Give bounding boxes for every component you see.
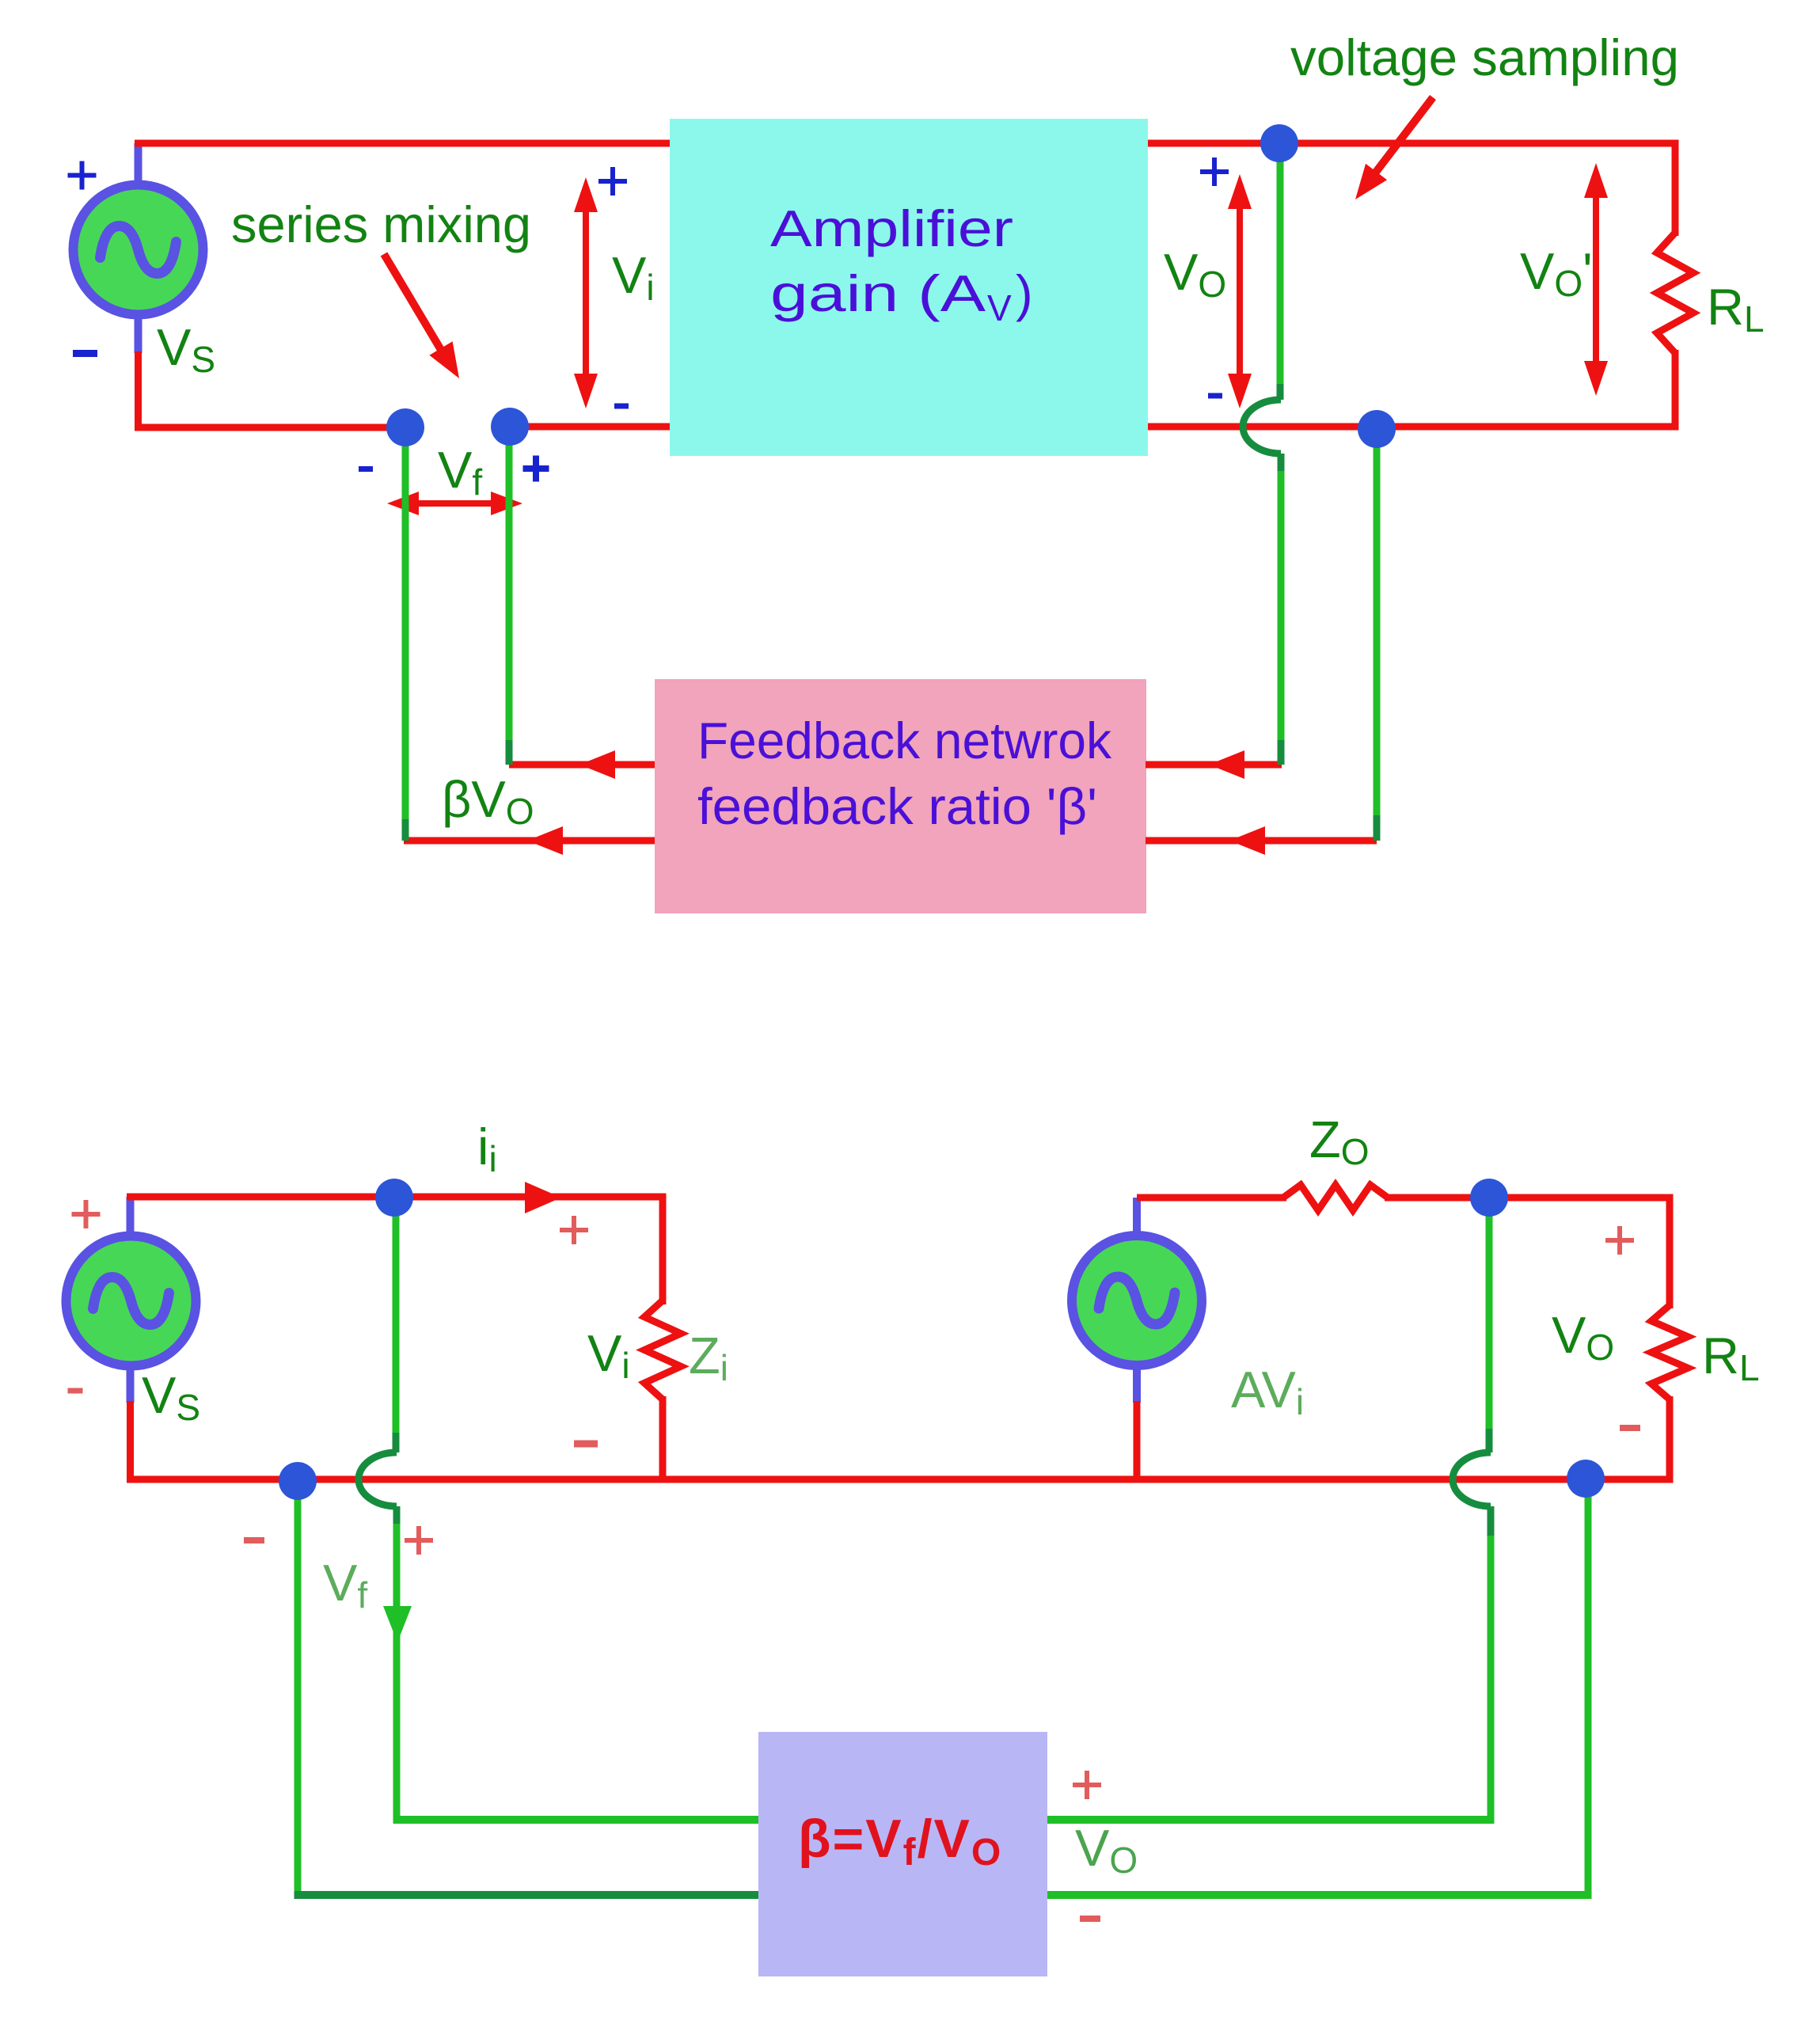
svg-text:RL: RL [1707, 278, 1765, 340]
wire bottom input left [135, 424, 405, 431]
node sampling top [1260, 124, 1298, 162]
minus Vo2 [1620, 1425, 1640, 1431]
svg-text:feedback ratio 'β': feedback ratio 'β' [697, 777, 1097, 835]
wire amplifier out bottom [1148, 423, 1679, 431]
minus VS2 [68, 1388, 83, 1394]
resistor RL top [1657, 233, 1693, 353]
wire green sample node down [1277, 144, 1284, 388]
arrow Vo-prime [1593, 193, 1599, 366]
amplifier U1 box [670, 119, 1148, 456]
plus Vi2 [560, 1228, 588, 1232]
minus Vf [359, 466, 373, 472]
svg-text:AVi: AVi [1231, 1361, 1304, 1422]
plus Vo2 [1605, 1238, 1634, 1243]
node output bottom [1358, 410, 1396, 448]
hop green right [1453, 1452, 1491, 1506]
source AVi stems [1133, 1198, 1141, 1240]
svg-text:VO: VO [1552, 1306, 1614, 1368]
wire RL top vertical [1672, 143, 1679, 236]
wire node2 to amplifier [510, 423, 670, 431]
amplifier U1 label [770, 199, 1033, 328]
arrowhead Vf green [383, 1606, 412, 1642]
wire feedback A [509, 761, 655, 769]
wire green upper horizontal right [1047, 1816, 1495, 1824]
source VS2 [66, 1236, 196, 1366]
arrowhead feedback C [1209, 750, 1244, 779]
node N1 [386, 408, 424, 446]
svg-text:Vi: Vi [612, 246, 655, 308]
minus Vi [614, 404, 629, 409]
feedback network box [655, 679, 1146, 913]
arrow series mixing [384, 254, 443, 354]
wire VS bottom stem [135, 351, 142, 427]
wire RL2 vertical bottom [1666, 1396, 1674, 1483]
wire amplifier out top [1148, 140, 1679, 147]
wire AVi top to Zo [1137, 1194, 1286, 1202]
svg-text:βVO: βVO [442, 770, 534, 832]
node N2 [491, 408, 529, 446]
svg-text:VO: VO [1075, 1819, 1138, 1881]
arrow Vo [1237, 204, 1243, 378]
svg-text:VO': VO' [1520, 242, 1593, 304]
plus Vf [523, 465, 549, 472]
svg-text:gain (A: gain (A [770, 264, 986, 322]
svg-text:Zi: Zi [689, 1327, 728, 1388]
wire AVi bottom stem [1134, 1401, 1141, 1479]
svg-text:): ) [1016, 264, 1033, 322]
minus Vo [1208, 393, 1222, 399]
svg-text:series mixing: series mixing [231, 196, 531, 253]
svg-text:RL: RL [1702, 1327, 1760, 1388]
arrowhead feedback B [527, 826, 563, 855]
wire green lower horizontal left [294, 1891, 759, 1899]
wire top left bottom-diagram [127, 1194, 667, 1201]
wire RL bottom vertical [1672, 350, 1679, 430]
hop green over output wire [1243, 400, 1281, 454]
resistor RL2 [1651, 1305, 1688, 1399]
minus Vi2 [574, 1441, 598, 1448]
wire feedback C [1146, 761, 1282, 769]
wire green output node down [1486, 1198, 1493, 1433]
source VS stems [135, 143, 142, 186]
plus beta box [1073, 1783, 1101, 1787]
node input [375, 1179, 413, 1217]
wire green node1 down [402, 427, 409, 823]
minus beta box [1080, 1916, 1100, 1922]
wire green right node down [1585, 1479, 1592, 1899]
arrow voltage sampling [1374, 97, 1433, 174]
plus VS [68, 173, 97, 178]
svg-text:ZO: ZO [1309, 1111, 1370, 1172]
wire VS2 bottom stem [127, 1401, 134, 1479]
wire green left node down [294, 1479, 302, 1899]
svg-text:Vf: Vf [438, 441, 482, 503]
node bottom right [1567, 1460, 1605, 1498]
svg-text:Vi: Vi [587, 1324, 630, 1386]
source AVi [1072, 1236, 1202, 1365]
wire green lower horizontal right [1047, 1891, 1592, 1899]
wire bottom rail [127, 1476, 1670, 1483]
svg-text:Amplifier: Amplifier [770, 199, 1013, 257]
wire green upper horizontal left [393, 1816, 758, 1824]
resistor Zi [644, 1300, 681, 1399]
svg-text:V: V [987, 287, 1012, 328]
wire feedback D [1146, 837, 1377, 845]
feedback network label [697, 712, 1111, 835]
wire top input [135, 140, 670, 147]
svg-text:Feedback netwrok: Feedback netwrok [697, 712, 1111, 769]
hop green left [359, 1452, 397, 1506]
node output top [1470, 1179, 1508, 1217]
node bottom left [279, 1462, 317, 1500]
arrowhead ii [525, 1182, 561, 1213]
svg-text:ii: ii [477, 1118, 497, 1179]
arrow Vi [583, 207, 589, 378]
wire RL2 vertical top [1666, 1198, 1674, 1308]
beta box [758, 1732, 1047, 1976]
wire feedback B [404, 837, 655, 845]
arrow Vf [414, 500, 496, 507]
svg-text:VS: VS [142, 1366, 200, 1428]
wire green node3 down [1374, 429, 1381, 819]
plus Vi [598, 179, 627, 184]
minus VS [73, 350, 97, 357]
svg-text:voltage sampling: voltage sampling [1290, 28, 1679, 86]
wire green input node down [393, 1198, 400, 1437]
svg-text:VS: VS [157, 318, 215, 380]
wire green node2 down [506, 427, 513, 744]
source VS2 stems [127, 1197, 135, 1240]
wire Zi vertical [659, 1194, 667, 1304]
arrowhead feedback A [579, 750, 615, 779]
plus Vo [1200, 169, 1229, 174]
svg-text:VO: VO [1164, 243, 1226, 305]
plus VS2 [72, 1212, 101, 1217]
wire Zo to corner [1385, 1194, 1674, 1202]
source VS [74, 185, 203, 315]
arrowhead feedback D [1229, 826, 1265, 855]
resistor Zo [1283, 1185, 1388, 1210]
minus Vf2 [244, 1537, 264, 1543]
plus Vf2 [405, 1538, 433, 1543]
svg-text:Vf: Vf [323, 1554, 367, 1616]
